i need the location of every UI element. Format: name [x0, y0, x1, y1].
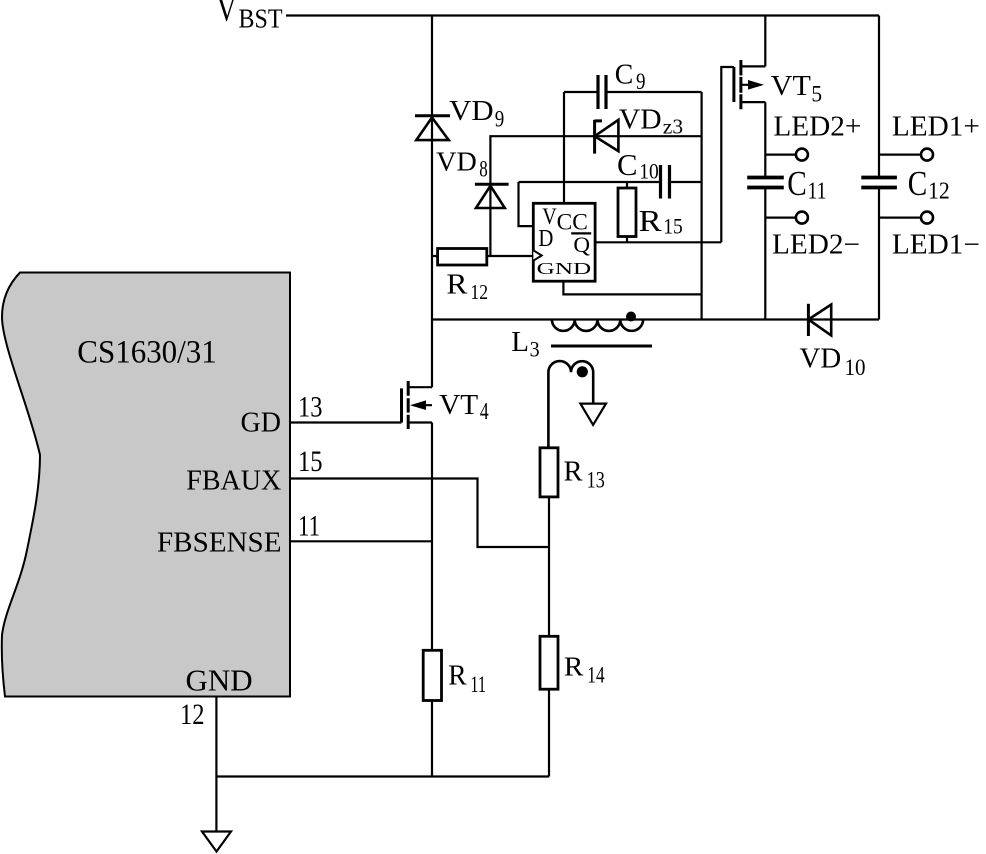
svg-text:VD: VD	[436, 146, 477, 177]
label R14	[564, 650, 605, 687]
label VT5	[771, 71, 822, 106]
svg-text:FBAUX: FBAUX	[186, 466, 281, 497]
capacitor C10	[661, 165, 670, 199]
terminal LED1+	[879, 149, 933, 161]
label VD8	[436, 146, 488, 182]
svg-text:CS1630/31: CS1630/31	[77, 334, 217, 370]
transformer core	[551, 345, 652, 348]
svg-text:13: 13	[298, 390, 323, 423]
svg-text:z3: z3	[663, 115, 683, 139]
wire bottom ground rail	[216, 775, 549, 777]
wire primary top	[432, 318, 879, 320]
wire D input connector	[519, 182, 534, 226]
label C9	[615, 58, 646, 94]
wire Qbar output	[595, 241, 721, 243]
svg-text:C: C	[617, 147, 638, 182]
label R11	[448, 660, 486, 696]
svg-text:15: 15	[663, 214, 683, 239]
flip-flop U2 box	[533, 203, 595, 281]
wire GND pin 12	[215, 697, 217, 832]
chip U CS1630/31	[2, 273, 290, 697]
wire C9 net	[564, 91, 702, 93]
resistor R14	[540, 636, 558, 776]
svg-text:C: C	[615, 58, 634, 90]
svg-text:GND: GND	[537, 259, 592, 278]
svg-text:8: 8	[479, 157, 488, 182]
terminal LED1-	[879, 212, 933, 224]
svg-text:11: 11	[808, 178, 827, 204]
svg-text:L: L	[511, 326, 529, 358]
flip-flop pin label Qbar	[571, 232, 591, 257]
node VBST label	[217, 0, 283, 34]
terminal LED2+	[765, 149, 808, 161]
resistor R13	[540, 448, 558, 637]
wire zener net	[490, 136, 701, 256]
wire main vertical drain branch	[431, 16, 433, 777]
label VD9	[449, 95, 504, 131]
inductor L3 primary winding	[552, 320, 643, 331]
svg-text:LED2−: LED2−	[772, 230, 860, 261]
svg-text:R: R	[446, 269, 468, 301]
zener diode VDz3	[595, 120, 619, 154]
svg-text:12: 12	[470, 280, 488, 304]
svg-text:VT: VT	[771, 71, 811, 102]
svg-text:GD: GD	[241, 407, 281, 438]
svg-text:R: R	[639, 203, 662, 238]
resistor R15	[618, 182, 636, 242]
svg-text:15: 15	[298, 445, 323, 478]
terminal LED2-	[765, 212, 808, 224]
svg-text:5: 5	[811, 81, 822, 106]
capacitor C9	[598, 75, 606, 109]
svg-text:9: 9	[495, 107, 505, 132]
wire C12 branch vertical	[878, 16, 880, 320]
diode VD10	[808, 304, 831, 336]
ground chip	[202, 832, 231, 852]
resistor R12	[432, 249, 533, 266]
label C12	[908, 164, 950, 205]
label VDz3	[619, 103, 683, 138]
label VT4	[439, 390, 489, 425]
svg-text:CC: CC	[557, 210, 588, 235]
label R13	[564, 456, 605, 492]
wire top rail VBST	[286, 14, 879, 16]
wire VT5 branch vertical	[764, 16, 766, 320]
label VD10	[800, 344, 866, 380]
svg-text:11: 11	[298, 510, 320, 543]
svg-text:12: 12	[928, 178, 950, 204]
svg-text:C: C	[787, 164, 807, 203]
wire VT5 gate	[721, 67, 734, 242]
svg-text:3: 3	[530, 337, 540, 362]
L3 secondary winding	[548, 361, 593, 448]
wire GD	[290, 421, 402, 423]
label R15	[639, 203, 683, 239]
svg-text:FBSENSE: FBSENSE	[157, 527, 282, 558]
ground secondary	[580, 404, 606, 425]
svg-text:GND: GND	[186, 663, 253, 698]
svg-text:12: 12	[180, 698, 205, 731]
secondary phase dot	[577, 366, 588, 377]
svg-text:VD: VD	[619, 103, 662, 135]
label L3	[511, 326, 539, 362]
flip-flop clock input triangle	[533, 250, 541, 260]
svg-text:D: D	[538, 225, 553, 252]
transistor VT5	[734, 60, 765, 109]
svg-text:LED2+: LED2+	[773, 112, 861, 143]
label R12	[446, 269, 488, 304]
label C10	[617, 147, 659, 184]
svg-text:VT: VT	[439, 390, 478, 421]
svg-text:9: 9	[636, 69, 646, 94]
svg-text:LED1−: LED1−	[892, 230, 980, 261]
svg-text:R: R	[564, 650, 584, 681]
flip-flop pin label VCC	[542, 204, 588, 235]
svg-text:14: 14	[587, 663, 605, 688]
svg-text:R: R	[448, 660, 467, 691]
capacitor C11	[747, 178, 784, 188]
svg-text:VD: VD	[800, 344, 842, 375]
wire FBAUX	[290, 479, 549, 548]
svg-text:BST: BST	[239, 4, 283, 34]
svg-text:10: 10	[845, 355, 866, 380]
resistor R11	[423, 650, 441, 700]
wire FBSENSE	[290, 540, 432, 542]
svg-text:V: V	[217, 0, 237, 28]
capacitor C12	[861, 178, 897, 188]
svg-text:R: R	[564, 456, 583, 487]
label C11	[787, 164, 826, 205]
svg-text:LED1+: LED1+	[892, 112, 980, 143]
wire right vertical x701	[700, 92, 702, 320]
diode VD8	[475, 184, 509, 208]
svg-text:VD: VD	[449, 95, 494, 127]
wire VCC vertical	[563, 92, 565, 203]
primary phase dot	[626, 312, 636, 322]
svg-text:Q: Q	[573, 232, 590, 257]
svg-text:10: 10	[639, 158, 659, 183]
svg-text:13: 13	[587, 468, 605, 493]
diode VD9	[415, 116, 450, 140]
wire flip-flop GND	[563, 281, 701, 294]
svg-text:11: 11	[470, 672, 486, 697]
wire C10 net	[519, 181, 702, 183]
svg-text:4: 4	[480, 399, 489, 425]
svg-text:C: C	[908, 164, 928, 203]
transistor VT4	[402, 381, 433, 429]
